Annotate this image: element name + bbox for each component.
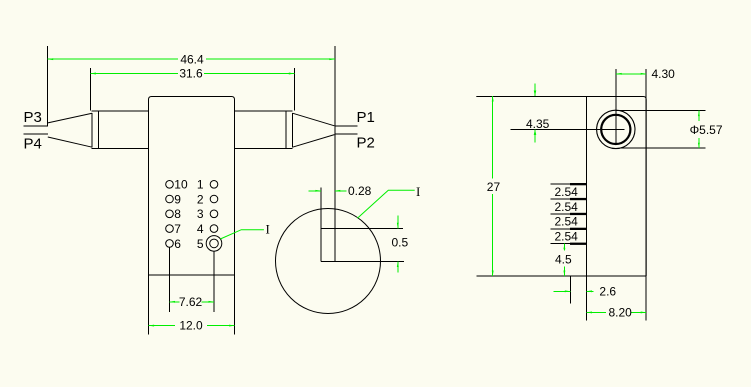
pin 5 center line xyxy=(213,251,215,312)
dimension 4.5 xyxy=(555,244,572,276)
leader to detail I from pin 5 xyxy=(220,222,270,239)
pin numbers right column xyxy=(197,178,204,251)
svg-text:8.20: 8.20 xyxy=(609,305,633,319)
dimension 0.28 xyxy=(309,184,372,198)
pin circles left column 10..6 xyxy=(166,181,174,248)
dimension 46.4 extension line left xyxy=(47,46,49,126)
svg-text:P4: P4 xyxy=(24,136,42,153)
svg-text:2.54: 2.54 xyxy=(555,200,579,214)
leader label I right xyxy=(357,184,420,218)
svg-text:8: 8 xyxy=(174,207,181,221)
svg-text:7.62: 7.62 xyxy=(179,295,203,309)
pin circles right column 1..5 xyxy=(210,181,218,233)
left taper boot xyxy=(48,113,92,147)
side view pins xyxy=(551,183,587,245)
right sleeve cylinder xyxy=(235,111,293,148)
label P4 xyxy=(24,136,42,153)
detail reference line 0.5 top xyxy=(321,227,403,229)
svg-text:2.54: 2.54 xyxy=(555,215,579,229)
svg-text:2.6: 2.6 xyxy=(599,284,616,298)
svg-text:10: 10 xyxy=(174,178,188,192)
dimension 46.4 xyxy=(48,52,335,66)
label P2 xyxy=(357,135,375,152)
svg-text:31.6: 31.6 xyxy=(179,67,203,81)
svg-text:3: 3 xyxy=(197,207,204,221)
pin extension line below body xyxy=(569,276,571,304)
pin pitch labels 2.54 xyxy=(555,185,579,244)
svg-text:2.54: 2.54 xyxy=(555,230,579,244)
dimension 0.5 xyxy=(392,216,409,273)
dimension 4.35 xyxy=(526,83,550,142)
svg-text:4.5: 4.5 xyxy=(555,253,572,267)
dimension 27 xyxy=(487,96,501,276)
port circle outer xyxy=(597,110,635,148)
left fiber pigtail lines xyxy=(24,126,48,134)
diameter tangent lines xyxy=(616,111,706,149)
detail pin bottom line xyxy=(321,261,404,263)
svg-text:Φ5.57: Φ5.57 xyxy=(690,123,723,137)
svg-text:4.35: 4.35 xyxy=(526,117,550,131)
dimension 4.30 xyxy=(616,67,675,81)
label P3 xyxy=(24,109,42,126)
dimension 12.0 xyxy=(149,319,235,333)
dimension 31.6 xyxy=(90,67,294,81)
detail pin left line xyxy=(320,187,322,261)
svg-text:4.30: 4.30 xyxy=(652,67,676,81)
label P1 xyxy=(357,109,375,126)
svg-text:6: 6 xyxy=(174,237,181,251)
body outline front view xyxy=(149,97,235,335)
svg-text:7: 7 xyxy=(174,222,181,236)
svg-text:I: I xyxy=(266,222,270,237)
dimension 46.4 extension line right / detail pin right line xyxy=(334,46,336,261)
body internal step line xyxy=(149,274,235,276)
svg-text:2: 2 xyxy=(197,192,204,206)
svg-text:46.4: 46.4 xyxy=(180,52,204,66)
svg-text:0.28: 0.28 xyxy=(348,184,372,198)
detail view circle xyxy=(276,209,381,314)
side view body outline xyxy=(476,69,646,320)
right fiber pigtail lines xyxy=(334,126,357,134)
left sleeve cylinder xyxy=(92,111,149,148)
port circle inner xyxy=(601,115,630,144)
svg-text:P3: P3 xyxy=(24,109,42,126)
dimension 31.6 extension lines xyxy=(90,68,294,111)
svg-text:I: I xyxy=(416,184,420,199)
dimension 7.62 xyxy=(170,295,215,309)
svg-text:0.5: 0.5 xyxy=(392,236,409,250)
dimension 2.6 xyxy=(554,284,617,298)
svg-text:P2: P2 xyxy=(357,135,375,152)
svg-text:5: 5 xyxy=(197,237,204,251)
right taper boot xyxy=(293,113,335,147)
svg-text:1: 1 xyxy=(197,178,204,192)
port center cross xyxy=(510,69,624,144)
pin 6 center line xyxy=(169,247,171,312)
svg-text:2.54: 2.54 xyxy=(555,185,579,199)
svg-text:P1: P1 xyxy=(357,109,375,126)
svg-text:27: 27 xyxy=(487,180,501,194)
svg-text:9: 9 xyxy=(174,192,181,206)
dimension 5.57 diameter xyxy=(690,111,723,149)
pin numbers left column xyxy=(174,178,188,251)
pin 5 detail circle (double) xyxy=(206,236,222,252)
svg-text:12.0: 12.0 xyxy=(179,319,203,333)
svg-text:4: 4 xyxy=(197,222,204,236)
dimension 8.20 xyxy=(587,305,647,319)
